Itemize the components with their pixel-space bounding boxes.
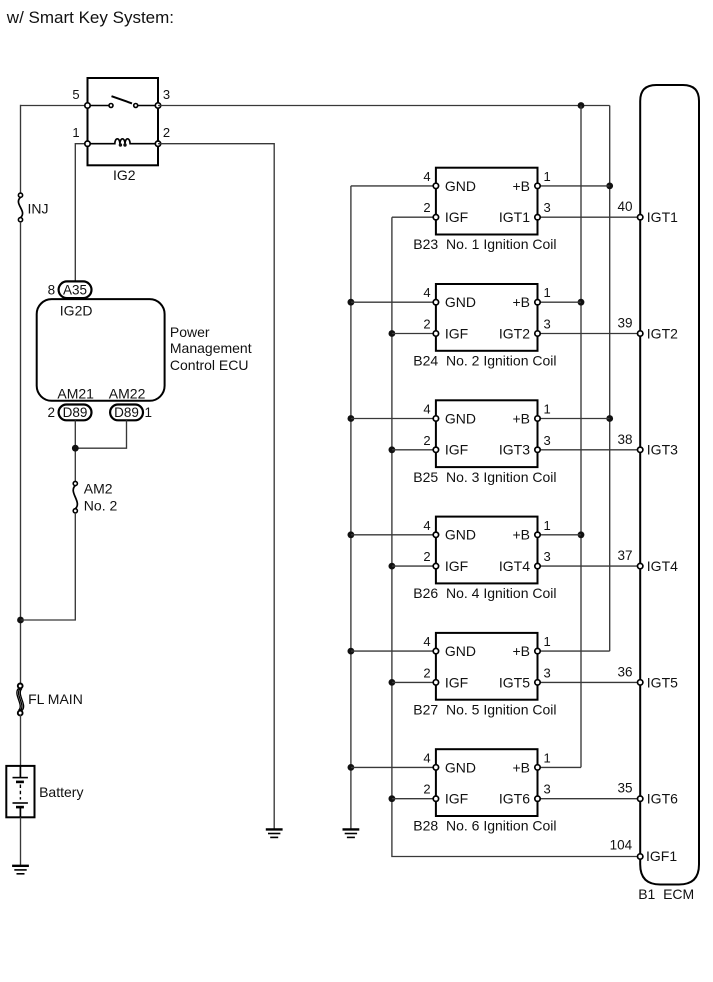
svg-text:1: 1 [544,169,551,184]
wire +B coil 4 [538,534,582,536]
connector D89 pin 1 [110,405,143,421]
relay internal wire contact to pin3 [136,105,158,107]
wire IGT1 coil to ECM [538,216,641,218]
junction +B bus A coil 3 [606,415,613,422]
connector D89 pin 2 [59,405,92,421]
wire +B coil 2 [538,301,582,303]
coil 1 pin 3 IGT1 [535,215,540,220]
wire IGF coil 5 [392,681,436,683]
coil 2 pin 1 +B [535,300,540,305]
svg-text:B24 No. 2 Ignition Coil: B24 No. 2 Ignition Coil [413,353,556,369]
svg-text:1: 1 [544,518,551,533]
connector A35 [59,281,92,298]
svg-text:36: 36 [617,664,632,679]
svg-text:A35: A35 [63,283,87,298]
relay pin 1 [85,141,90,146]
Power Management Control ECU box [37,299,165,401]
svg-text:Control ECU: Control ECU [170,357,249,373]
junction +B bus A coil 1 [606,183,613,190]
wire GND coil 5 [351,650,436,652]
svg-text:AM22: AM22 [109,386,146,402]
wire GND coil 1 [351,185,436,187]
coil 5 pin 4 GND [433,648,438,653]
GND bus [350,186,352,829]
junction +B bus B coil 4 [578,531,585,538]
svg-text:3: 3 [544,782,551,797]
ground for relay pin 2 line [266,828,283,830]
svg-text:2: 2 [163,125,170,140]
ECM pin 39 IGT2 [638,331,643,336]
coil 4 pin 4 GND [433,532,438,537]
relay pin 3 [155,103,160,108]
svg-text:B26 No. 4 Ignition Coil: B26 No. 4 Ignition Coil [413,585,556,601]
coil 5 pin 1 +B [535,648,540,653]
junction IGF bus coil 3 [389,446,396,453]
relay internal wire pin5 to contact [88,105,112,107]
svg-text:D89: D89 [63,405,88,420]
svg-text:IGT5: IGT5 [647,674,678,690]
svg-text:GND: GND [445,178,476,194]
svg-text:4: 4 [423,750,430,765]
svg-text:IGT2: IGT2 [499,325,530,341]
coil 6 pin 2 IGF [433,796,438,801]
relay coil winding [88,139,159,144]
+B bus B (coils 2,4,6) [580,106,582,768]
wire IGT3 coil to ECM [538,449,641,451]
wire INJ to junction and battery [20,222,22,686]
relay IG2 box [88,78,159,165]
junction GND bus coil 2 [348,299,355,306]
svg-text:INJ: INJ [28,200,49,216]
svg-text:B27 No. 5 Ignition Coil: B27 No. 5 Ignition Coil [413,701,556,717]
ignition coil B23 box [436,168,538,235]
svg-text:GND: GND [445,759,476,775]
wire IGT4 coil to ECM [538,565,641,567]
wire battery to ground [20,817,22,865]
svg-text:5: 5 [72,87,79,102]
svg-text:4: 4 [423,169,430,184]
svg-text:IG2: IG2 [113,167,136,183]
junction GND bus coil 4 [348,531,355,538]
ignition coil B24 box [436,284,538,351]
coil 2 pin 2 IGF [433,331,438,336]
coil 3 pin 2 IGF [433,447,438,452]
svg-text:4: 4 [423,285,430,300]
svg-text:39: 39 [617,316,632,331]
wire IGF coil 4 [392,565,436,567]
ground for GND bus [343,828,360,830]
svg-text:IGF: IGF [445,209,468,225]
wire relay pin 2 down to ground [158,144,274,829]
wire +B coil 3 [538,418,610,420]
+B bus A (coils 1,3,5) [609,106,611,652]
svg-text:IGT1: IGT1 [499,209,530,225]
svg-text:+B: +B [512,759,530,775]
ECM pin 35 IGT6 [638,796,643,801]
wire FL MAIN to battery [20,714,22,766]
wire GND coil 4 [351,534,436,536]
ignition coil B25 box [436,400,538,467]
svg-text:4: 4 [423,634,430,649]
svg-text:IGT2: IGT2 [647,325,678,341]
svg-text:IGT6: IGT6 [647,791,678,807]
svg-text:104: 104 [610,838,633,853]
svg-text:+B: +B [512,294,530,310]
svg-text:GND: GND [445,527,476,543]
svg-text:1: 1 [544,402,551,417]
svg-text:No. 2: No. 2 [84,497,118,513]
junction GND bus coil 5 [348,648,355,655]
svg-text:37: 37 [617,548,632,563]
svg-text:IGT5: IGT5 [499,674,530,690]
wire +B coil 1 [538,185,610,187]
svg-text:3: 3 [544,200,551,215]
IGF bus [392,217,640,856]
coil 3 pin 4 GND [433,416,438,421]
svg-text:3: 3 [544,549,551,564]
svg-text:1: 1 [544,285,551,300]
svg-text:+B: +B [512,527,530,543]
wire left rail down to fuse INJ [20,105,22,193]
wire relay pin 1 to connector A35 [75,144,87,283]
wire IGF coil 2 [392,333,436,335]
svg-text:2: 2 [423,665,430,680]
coil 6 pin 1 +B [535,765,540,770]
svg-text:IGT6: IGT6 [499,791,530,807]
ignition coil B26 box [436,517,538,584]
svg-text:8: 8 [48,283,56,298]
svg-text:1: 1 [544,634,551,649]
wire IGT2 coil to ECM [538,333,641,335]
relay switch contact left [109,104,113,108]
junction GND bus coil 6 [348,764,355,771]
svg-text:GND: GND [445,294,476,310]
svg-text:IGT4: IGT4 [499,558,530,574]
coil 1 pin 2 IGF [433,215,438,220]
junction +B bus B coil 2 [578,299,585,306]
ECM pin 38 IGT3 [638,447,643,452]
svg-text:IG2D: IG2D [60,302,93,318]
ECM pin 36 IGT5 [638,680,643,685]
wire +B coil 5 [538,650,610,652]
svg-text:IGT3: IGT3 [499,442,530,458]
wire +B coil 6 [538,766,582,768]
fuse INJ [18,197,22,218]
svg-text:IGF1: IGF1 [646,848,677,864]
svg-text:IGF: IGF [445,674,468,690]
svg-text:1: 1 [72,125,79,140]
junction IGF bus coil 6 [389,795,396,802]
wire IGF coil 1 [392,216,436,218]
svg-text:B1 ECM: B1 ECM [638,886,694,902]
coil 5 pin 2 IGF [433,680,438,685]
coil 4 pin 1 +B [535,532,540,537]
wire from relay pin 5 to left rail [21,105,88,107]
ECM pin 37 IGT4 [638,563,643,568]
svg-text:D89: D89 [114,405,139,420]
junction IGF bus coil 2 [389,330,396,337]
wire IGF coil 6 [392,798,436,800]
wire GND coil 2 [351,301,436,303]
svg-text:B28 No. 6 Ignition Coil: B28 No. 6 Ignition Coil [413,818,556,834]
svg-text:Battery: Battery [39,784,83,800]
wire IGT5 coil to ECM [538,681,641,683]
svg-text:2: 2 [423,782,430,797]
svg-text:AM2: AM2 [84,481,113,497]
coil 1 pin 1 +B [535,183,540,188]
relay pin 2 [155,141,160,146]
svg-text:AM21: AM21 [57,386,94,402]
svg-text:+B: +B [512,643,530,659]
svg-text:35: 35 [617,781,632,796]
relay switch blade [112,96,133,103]
svg-text:1: 1 [544,750,551,765]
wire AM2 to left rail [21,513,76,620]
svg-text:IGT4: IGT4 [647,558,678,574]
coil 5 pin 3 IGT5 [535,680,540,685]
svg-text:1: 1 [145,405,153,420]
junction IGF bus coil 4 [389,563,396,570]
junction node at left rail [17,617,24,624]
coil 3 pin 3 IGT3 [535,447,540,452]
relay pin 5 [85,103,90,108]
svg-text:GND: GND [445,643,476,659]
wire GND coil 3 [351,418,436,420]
svg-text:2: 2 [423,317,430,332]
svg-text:IGF: IGF [445,791,468,807]
fuse AM2 No. 2 [73,486,77,509]
coil 3 pin 1 +B [535,416,540,421]
wire IGT6 coil to ECM [538,798,641,800]
junction GND bus coil 3 [348,415,355,422]
wire relay pin 3 to +B buses [158,105,610,107]
coil 2 pin 3 IGT2 [535,331,540,336]
coil 4 pin 3 IGT4 [535,563,540,568]
svg-text:40: 40 [617,199,632,214]
coil 6 pin 3 IGT6 [535,796,540,801]
wire from D89 pin2 down to fuse AM2 [74,420,76,481]
svg-text:B23 No. 1 Ignition Coil: B23 No. 1 Ignition Coil [413,236,556,252]
svg-text:IGT1: IGT1 [647,209,678,225]
coil 6 pin 4 GND [433,765,438,770]
relay switch contact right [134,104,138,108]
svg-text:+B: +B [512,178,530,194]
svg-text:+B: +B [512,410,530,426]
svg-text:2: 2 [423,433,430,448]
svg-text:IGF: IGF [445,558,468,574]
svg-text:FL MAIN: FL MAIN [28,691,83,707]
svg-text:Management: Management [170,340,252,356]
svg-text:3: 3 [544,433,551,448]
ignition coil B28 box [436,749,538,816]
junction +B bus B at top wire [578,102,585,109]
junction node AM2 [72,445,79,452]
ECM pin 104 IGF1 [638,854,643,859]
svg-text:3: 3 [544,317,551,332]
svg-text:IGF: IGF [445,442,468,458]
wire GND coil 6 [351,766,436,768]
junction IGF bus coil 5 [389,679,396,686]
svg-text:GND: GND [445,410,476,426]
svg-text:Power: Power [170,324,210,340]
wire from D89 pin1 to junction [75,420,126,448]
svg-text:B25 No. 3 Ignition Coil: B25 No. 3 Ignition Coil [413,469,556,485]
ground below battery [12,865,29,867]
svg-text:w/ Smart Key System:: w/ Smart Key System: [6,8,174,27]
svg-text:4: 4 [423,518,430,533]
svg-text:3: 3 [163,87,170,102]
svg-text:38: 38 [617,432,632,447]
svg-text:4: 4 [423,402,430,417]
wire IGF coil 3 [392,449,436,451]
ECM outline B1 [640,85,699,885]
coil 2 pin 4 GND [433,300,438,305]
svg-text:2: 2 [47,405,55,420]
svg-text:2: 2 [423,200,430,215]
coil 4 pin 2 IGF [433,563,438,568]
coil 1 pin 4 GND [433,183,438,188]
svg-text:3: 3 [544,665,551,680]
svg-text:IGT3: IGT3 [647,442,678,458]
fusible link FL MAIN [17,689,24,711]
battery [6,766,34,817]
svg-text:2: 2 [423,549,430,564]
ECM pin 40 IGT1 [638,215,643,220]
ignition coil B27 box [436,633,538,700]
svg-text:IGF: IGF [445,325,468,341]
